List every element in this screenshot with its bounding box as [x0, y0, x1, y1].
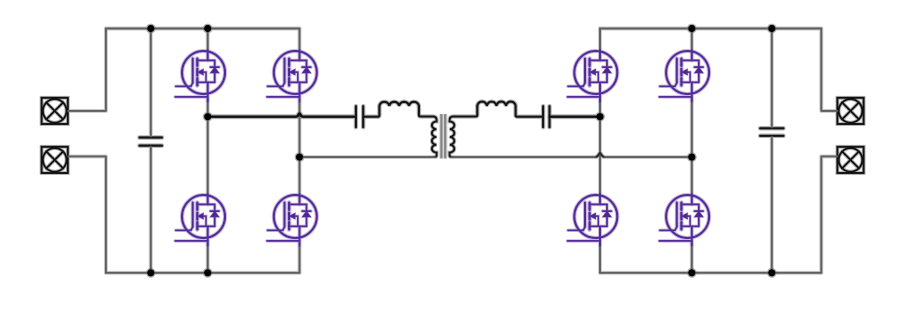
- wire leg Q3 source: [207, 241, 209, 273]
- wire T1 secondary to L2: [453, 106, 477, 116]
- transistor Q3 (left bridge lower-left MOSFET): [175, 194, 225, 246]
- wire T1 secondary return to node D (hops over leg): [451, 153, 692, 157]
- transistor Q8 (right bridge lower-right MOSFET): [659, 194, 709, 246]
- wire bottom rail (left bridge): [106, 272, 300, 274]
- transistor Q2 (left bridge upper-right MOSFET): [267, 50, 317, 102]
- transistor Q4 (left bridge lower-right MOSFET): [267, 194, 317, 246]
- wire bottom rail (right bridge): [600, 272, 821, 274]
- inductor L2: [477, 102, 515, 107]
- capacitor Cs1 (left series): [356, 106, 363, 127]
- node B (left bridge output, leg B midpoint): [296, 154, 303, 161]
- wire node A to Cs1 (hops over leg B): [208, 113, 355, 116]
- wire node D to Q8 drain: [691, 157, 693, 196]
- node C (right bridge input, leg C midpoint): [596, 113, 603, 120]
- transistor Q1 (left bridge upper-left MOSFET): [175, 50, 225, 102]
- node: bottom rail / C2 junction: [768, 269, 775, 276]
- wire L1 to T1 primary: [419, 106, 433, 116]
- port terminal J1 (left top): [42, 98, 68, 124]
- transformer T1 secondary winding: [450, 117, 455, 157]
- wire leg Q8 source: [691, 241, 693, 273]
- wire leg Q1 drain: [207, 29, 209, 53]
- wire node A to Q3 drain: [207, 117, 209, 196]
- wire C1 top lead: [150, 29, 152, 137]
- transformer T1 core: [441, 114, 445, 159]
- wire top rail (left bridge): [106, 28, 300, 30]
- wire node B to Q4 drain: [299, 157, 301, 196]
- port terminal J4 (right bottom): [837, 147, 863, 173]
- wire top rail (right bridge): [600, 28, 821, 30]
- wire L2 to Cs2: [516, 106, 543, 117]
- wire leg Q2 source to node B: [299, 98, 301, 157]
- wire J3 to top rail: [821, 29, 837, 111]
- node: bottom rail / leg Q3 junction: [204, 269, 211, 276]
- wire leg Q1 source to node A: [207, 98, 209, 117]
- capacitor Cs2 (right series): [543, 106, 549, 127]
- node: top rail / leg Q6 junction: [688, 25, 695, 32]
- node: top rail / leg Q1 junction: [204, 25, 211, 32]
- wire Cs2 to node C: [550, 115, 601, 117]
- inductor L1: [379, 102, 418, 106]
- wire J4 to bottom rail: [821, 156, 837, 272]
- port terminal J3 (right top): [837, 98, 863, 124]
- wire node C to Q7 drain: [599, 117, 601, 196]
- transistor Q5 (right bridge upper-left MOSFET): [568, 50, 618, 102]
- node A (left bridge output, leg A midpoint): [204, 113, 211, 120]
- transistor Q6 (right bridge upper-right MOSFET): [659, 50, 709, 102]
- wire C2 top lead: [771, 29, 773, 128]
- wire Cs1 to L1: [363, 106, 379, 117]
- wire leg Q5 source to node C: [599, 98, 601, 117]
- wire leg Q6 drain: [691, 29, 693, 53]
- wire leg Q5 drain: [599, 29, 601, 53]
- node: top rail / C1 junction: [147, 25, 154, 32]
- node: bottom rail / C1 junction: [147, 269, 154, 276]
- node: top rail / C2 junction: [768, 25, 775, 32]
- transistor Q7 (right bridge lower-left MOSFET): [568, 194, 618, 246]
- transformer T1 primary winding: [432, 117, 437, 157]
- port terminal J2 (left bottom): [42, 147, 68, 173]
- wire leg Q4 source: [299, 241, 301, 273]
- wire leg Q7 source: [599, 241, 601, 273]
- wire hop detail at leg C crossing: [597, 153, 604, 157]
- wire node B to T1 primary return: [300, 156, 435, 158]
- wire J1 to top rail: [68, 29, 106, 111]
- capacitor C1 (left DC link): [140, 138, 162, 146]
- wire leg Q6 source to node D: [691, 98, 693, 157]
- node: bottom rail / leg Q8 junction: [688, 269, 695, 276]
- wire C1 bottom lead: [150, 147, 152, 273]
- wire J2 to bottom rail: [68, 156, 106, 272]
- node D (right bridge input, leg D midpoint): [688, 154, 695, 161]
- capacitor C2 (right DC link): [760, 128, 783, 136]
- wire leg Q2 drain: [299, 29, 301, 53]
- wire C2 bottom lead: [771, 137, 773, 273]
